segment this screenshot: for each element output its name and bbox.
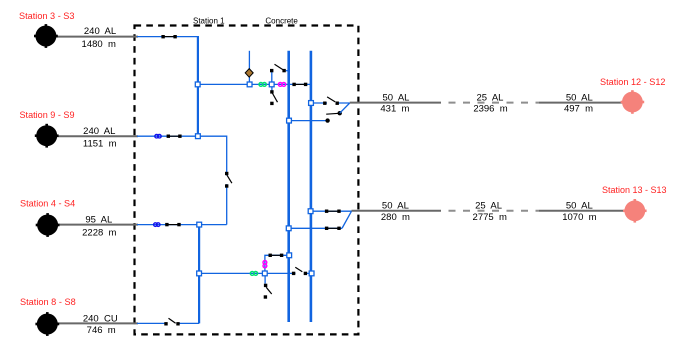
row2 y=273.4: wire from node6 to node7 (199, 272, 265, 274)
svg-text:50 AL: 50 AL (566, 201, 593, 212)
wire: S3 blue line inside station (137, 36, 199, 38)
node row2 mid (262, 271, 267, 276)
wire: row y=84.4 from node1 to busbar1 (198, 83, 289, 85)
switch closed node7-busbar1 link (269, 254, 284, 257)
S12 bay lower contact dot (325, 118, 329, 122)
S12 bay from busbar2: wire (311, 102, 350, 104)
wire: S9 blue line inside station (137, 135, 198, 137)
switch closed on S9 line (167, 135, 182, 138)
wire: S9 gray feeder line (56, 135, 138, 137)
svg-text:95 AL: 95 AL (85, 215, 112, 226)
svg-text:Station 1: Station 1 (193, 17, 225, 26)
svg-text:Concrete: Concrete (265, 17, 298, 26)
S13 bay closed switch bottom (325, 227, 341, 230)
S12 bay from busbar1: wire (289, 120, 328, 122)
node S12 bay busbar2 (309, 101, 314, 106)
svg-text:240 CU: 240 CU (83, 313, 118, 324)
node 2 (247, 82, 252, 87)
svg-text:240 AL: 240 AL (83, 126, 115, 137)
cable rings on S9 line (155, 134, 161, 138)
fuse diamond (245, 69, 253, 78)
station S12 circle (621, 90, 645, 114)
svg-text:Station 12 - S12: Station 12 - S12 (600, 77, 666, 88)
S12 bay open blade (326, 112, 339, 115)
station S9 circle (35, 124, 59, 148)
S13 gray line solid 2 (539, 210, 624, 212)
switch open node3-to-busbar1 top (270, 64, 289, 72)
S12 bay open switch (323, 97, 339, 105)
svg-text:25 AL: 25 AL (475, 201, 502, 212)
node row2 left (197, 271, 202, 276)
node S13 bay busbar1 (286, 226, 291, 231)
svg-text:50 AL: 50 AL (566, 92, 593, 103)
switch open on S8 line (164, 318, 179, 326)
node S9 (196, 134, 201, 139)
wire: S8 gray feeder line (56, 322, 138, 324)
svg-text:50 AL: 50 AL (382, 201, 409, 212)
node row2 right busbar2 (309, 271, 314, 276)
wire: vertical A from S3 corner down to S9 node (197, 37, 199, 137)
station boundary box Station 1 (135, 26, 359, 335)
S13 gray line dashed (441, 210, 539, 212)
svg-text:1151 m: 1151 m (83, 138, 117, 149)
S12 bay pivot dot (338, 111, 342, 115)
node 3 (269, 82, 274, 87)
svg-text:280 m: 280 m (381, 212, 410, 223)
wire: S4 blue line inside station (137, 224, 227, 226)
switch open on vertical B (225, 172, 232, 188)
wire: stub up from node3 to bus coupler switch (271, 71, 273, 85)
wire: node7 up stub and link to busbar1 (265, 255, 289, 273)
svg-text:2775 m: 2775 m (473, 212, 507, 223)
svg-text:497 m: 497 m (564, 104, 593, 115)
S12 gray line dashed (441, 102, 539, 104)
green rings row1 (259, 83, 266, 87)
busbar 1 (287, 51, 290, 322)
svg-text:240 AL: 240 AL (84, 26, 116, 37)
wire: S9 row to the right and down to S4 row (198, 136, 227, 224)
svg-text:1070 m: 1070 m (562, 212, 596, 223)
S13 bay from busbar1: wire (289, 227, 343, 229)
wire: S4 gray feeder line (56, 224, 138, 226)
switch open dangling below node7 (264, 273, 272, 298)
magenta rings row2 vertical (263, 261, 267, 268)
station S8 circle (35, 312, 59, 336)
switch open dangling below node3 (270, 84, 277, 105)
node coupler busbar1 (287, 253, 292, 258)
S13 bay from busbar2: wire (311, 210, 352, 212)
switch closed on S3 line (161, 35, 176, 38)
wire: S3 gray feeder line (56, 36, 138, 38)
wire: S8 blue line inside station (137, 322, 199, 324)
svg-text:2228 m: 2228 m (82, 227, 116, 238)
svg-text:50 AL: 50 AL (383, 92, 410, 103)
station S4 circle (36, 213, 60, 237)
svg-text:1480 m: 1480 m (82, 39, 116, 50)
node S13 bay busbar2 (308, 209, 313, 214)
wire: stub with fuse diamond above node2 (248, 51, 250, 85)
svg-text:2396 m: 2396 m (473, 104, 507, 115)
busbar 2 (310, 51, 313, 322)
green rings row2 (250, 272, 257, 276)
node 1 (195, 82, 200, 87)
switch closed on S4 line (165, 223, 181, 226)
S13 gray line solid (352, 210, 442, 212)
svg-text:Station 8 - S8: Station 8 - S8 (20, 297, 76, 308)
wire: node7 right to busbar2 (265, 272, 312, 274)
svg-text:746 m: 746 m (87, 325, 116, 336)
magenta rings row1 (278, 83, 285, 87)
wire: vertical C from S4 node down to S8 corner (198, 225, 200, 324)
S13 bay closed switch top (325, 210, 341, 213)
node S4 (197, 222, 202, 227)
svg-text:Station 3 - S3: Station 3 - S3 (19, 11, 75, 22)
svg-text:Station 9 - S9: Station 9 - S9 (20, 110, 75, 121)
switch open row2 busbar1-busbar2 (292, 267, 307, 275)
station S3 circle (34, 24, 58, 48)
cable rings on S4 line (154, 223, 160, 227)
S12 gray line solid (350, 102, 441, 104)
svg-text:25 AL: 25 AL (477, 92, 504, 103)
bus link row1 busbar1-busbar2 (289, 83, 311, 86)
S12 bay diagonal to junction (340, 103, 350, 113)
svg-text:Station 13 - S13: Station 13 - S13 (602, 185, 667, 196)
node squares (195, 82, 314, 276)
node S12 bay busbar1 (287, 118, 292, 123)
station S13 circle (623, 199, 647, 223)
svg-text:431 m: 431 m (380, 104, 409, 115)
S13 bay diagonal to junction (342, 211, 351, 228)
S12 gray line solid 2 (539, 102, 623, 104)
svg-text:Station 4 - S4: Station 4 - S4 (20, 198, 75, 209)
